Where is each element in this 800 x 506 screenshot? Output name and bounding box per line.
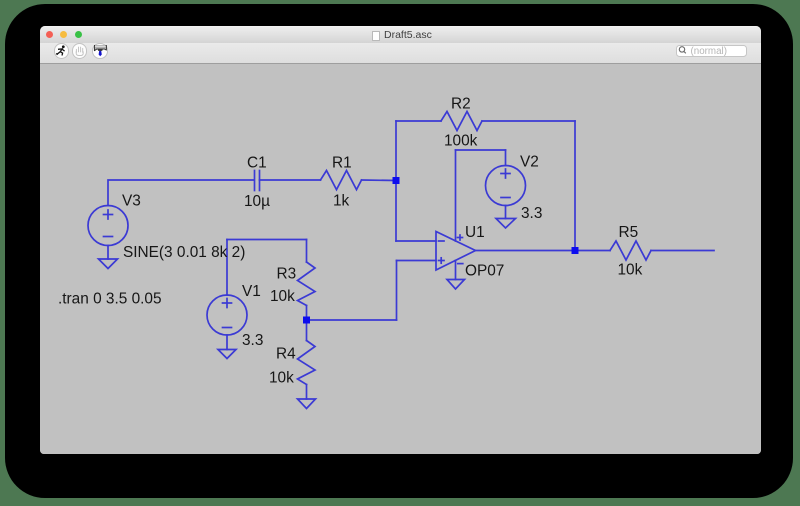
svg-text:SINE(3 0.01 8k 2): SINE(3 0.01 8k 2) <box>123 244 245 261</box>
svg-text:C1: C1 <box>247 155 267 172</box>
svg-text:10k: 10k <box>270 288 295 305</box>
svg-text:OP07: OP07 <box>465 263 504 280</box>
svg-text:V1: V1 <box>242 283 261 300</box>
svg-text:R4: R4 <box>276 346 296 363</box>
svg-text:R2: R2 <box>451 96 471 113</box>
svg-text:100k: 100k <box>444 133 478 150</box>
svg-text:R5: R5 <box>619 224 639 241</box>
svg-text:R1: R1 <box>332 155 352 172</box>
svg-text:U1: U1 <box>465 224 485 241</box>
svg-text:1k: 1k <box>333 193 350 210</box>
svg-text:3.3: 3.3 <box>521 205 542 222</box>
svg-text:V2: V2 <box>520 154 539 171</box>
svg-text:.tran 0 3.5 0.05: .tran 0 3.5 0.05 <box>58 291 162 308</box>
svg-text:10k: 10k <box>618 262 643 279</box>
svg-text:10µ: 10µ <box>244 193 270 210</box>
svg-text:10k: 10k <box>269 370 294 387</box>
svg-text:3.3: 3.3 <box>242 332 263 349</box>
svg-text:R3: R3 <box>277 266 297 283</box>
svg-text:V3: V3 <box>122 193 141 210</box>
